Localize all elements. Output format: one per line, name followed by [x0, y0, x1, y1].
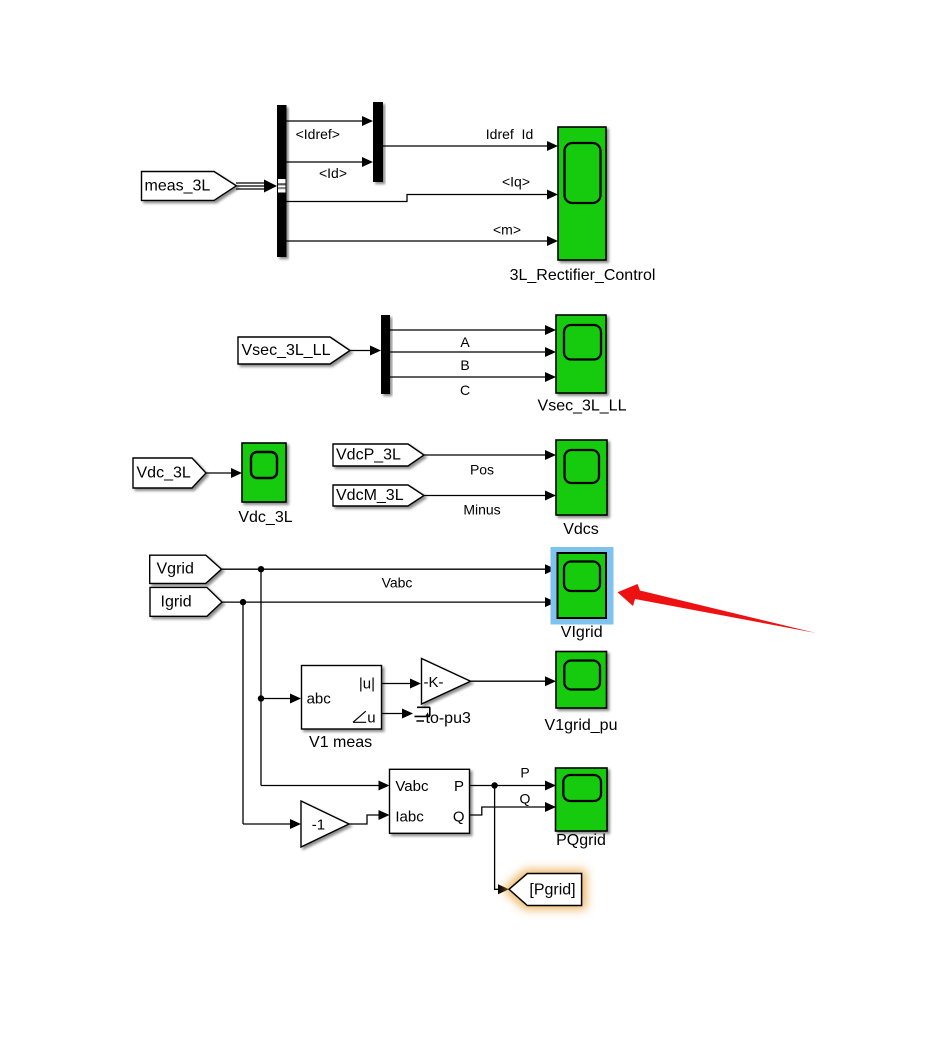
wire Vgrid (Vabc) [222, 564, 557, 590]
block V1 meas [302, 666, 382, 752]
wire <m> [287, 222, 559, 247]
annotation red arrow [618, 584, 817, 633]
gain G-1 (-1) [301, 801, 349, 847]
svg-text:Vdc_3L: Vdc_3L [137, 465, 191, 482]
svg-text:meas_3L: meas_3L [145, 178, 211, 195]
wire C [390, 372, 556, 398]
svg-text:Igrid: Igrid [161, 594, 192, 611]
svg-text:Pos: Pos [470, 462, 494, 478]
svg-text:Idref Id: Idref Id [486, 126, 533, 142]
goto tag highlight glow [503, 870, 586, 909]
svg-text:Vdcs: Vdcs [563, 521, 599, 538]
svg-text:<Idref>: <Idref> [296, 126, 340, 142]
wire <Idref> [287, 116, 374, 142]
svg-text:V1grid_pu: V1grid_pu [545, 717, 618, 734]
svg-text:|u|: |u| [359, 676, 375, 693]
wire |u| to gain [382, 679, 422, 689]
svg-text:PQgrid: PQgrid [556, 832, 606, 849]
wire Vgrid down-branch [258, 569, 264, 785]
svg-text:P: P [454, 778, 464, 795]
svg-text:C: C [460, 382, 470, 398]
svg-text:Vgrid: Vgrid [157, 561, 194, 578]
svg-text:VdcP_3L: VdcP_3L [336, 447, 401, 464]
wire to gain -1 [243, 819, 301, 829]
svg-text:P: P [520, 765, 529, 781]
svg-text:VdcM_3L: VdcM_3L [336, 487, 404, 504]
From tag Vdc_3L [133, 458, 206, 488]
bus wire meas_3L to bus selector [236, 180, 277, 193]
wire P to scope [470, 765, 557, 791]
svg-text:-1: -1 [312, 817, 325, 834]
wire <Id> [287, 157, 374, 181]
scope VIgrid [558, 553, 607, 641]
demux D1 [381, 315, 390, 394]
wire P to Pgrid tag [495, 786, 509, 895]
block power measurement [390, 769, 470, 833]
wire Vsec tag to demux [350, 346, 381, 356]
wire Vdc_3L to scope [206, 468, 242, 478]
wire -1 to Iabc [349, 810, 390, 824]
wire branch to V1 meas [261, 694, 301, 704]
svg-text:B: B [460, 357, 469, 373]
wire angle-u to terminator [382, 709, 414, 719]
scope 3L_Rectifier_Control [510, 127, 656, 284]
goto tag [Pgrid] [509, 874, 582, 906]
svg-text:Vsec_3L_LL: Vsec_3L_LL [242, 342, 331, 359]
From tag meas_3L [142, 172, 237, 201]
scope V1grid_pu [545, 652, 618, 735]
wire B [390, 347, 556, 373]
mux M1 [373, 102, 383, 182]
svg-text:to-pu3: to-pu3 [426, 710, 471, 727]
svg-text:Minus: Minus [463, 502, 500, 518]
svg-text:Q: Q [453, 809, 465, 826]
scope Vsec_3L_LL [538, 315, 627, 415]
svg-text:Q: Q [520, 791, 531, 807]
svg-text:Vabc: Vabc [382, 575, 413, 591]
From tag VdcM_3L [333, 485, 424, 506]
From tag Igrid [150, 587, 222, 616]
svg-text:V1 meas: V1 meas [309, 734, 372, 751]
svg-text:Vabc: Vabc [395, 778, 429, 795]
wire Igrid down-branch [242, 602, 244, 824]
terminator T1 [415, 707, 431, 721]
svg-text:abc: abc [307, 691, 332, 708]
svg-text:A: A [460, 334, 470, 350]
bus selector BS1 [277, 105, 287, 257]
wire gain to V1grid_pu [471, 676, 557, 686]
svg-text:u: u [367, 710, 375, 727]
svg-text:Vsec_3L_LL: Vsec_3L_LL [538, 398, 627, 415]
gain to-pu3 (-K-) [422, 659, 471, 728]
wire to Vabc input [261, 781, 390, 791]
svg-text:<Id>: <Id> [319, 165, 347, 181]
svg-text:[Pgrid]: [Pgrid] [529, 881, 575, 898]
wire Q to scope [470, 791, 557, 816]
svg-text:<Iq>: <Iq> [502, 174, 530, 190]
selection highlight VIgrid [551, 547, 614, 625]
svg-text:-K-: -K- [424, 674, 444, 691]
svg-text:Vdc_3L: Vdc_3L [238, 509, 292, 526]
svg-text:<m>: <m> [493, 222, 521, 238]
svg-text:3L_Rectifier_Control: 3L_Rectifier_Control [510, 267, 656, 284]
wire Igrid [222, 597, 556, 607]
scope Vdc_3L [238, 443, 292, 526]
wire A [390, 325, 556, 350]
wire mux to scope (Idref Id) [383, 126, 558, 151]
svg-text:VIgrid: VIgrid [561, 624, 603, 641]
wire <Iq> [287, 174, 559, 202]
From tag VdcP_3L [333, 444, 424, 466]
scope PQgrid [556, 768, 608, 849]
svg-text:Iabc: Iabc [395, 809, 424, 826]
From tag Vgrid [150, 555, 222, 583]
From tag Vsec_3L_LL [238, 337, 350, 364]
scope Vdcs [556, 440, 607, 538]
wire Pos [424, 450, 556, 478]
wire Minus [424, 491, 556, 518]
